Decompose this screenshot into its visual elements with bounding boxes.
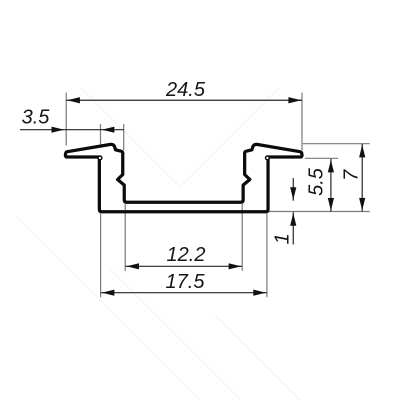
svg-text:7: 7 xyxy=(340,169,362,181)
svg-text:12.2: 12.2 xyxy=(167,244,206,266)
svg-text:3.5: 3.5 xyxy=(22,107,51,129)
svg-text:24.5: 24.5 xyxy=(165,79,206,101)
svg-text:1: 1 xyxy=(271,233,293,244)
svg-text:5.5: 5.5 xyxy=(306,167,328,196)
svg-text:17.5: 17.5 xyxy=(166,271,206,293)
